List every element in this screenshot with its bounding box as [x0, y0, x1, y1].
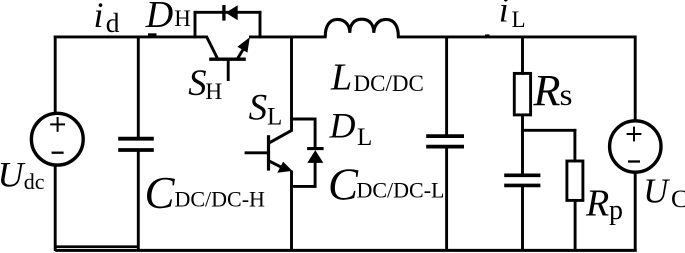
- svg-text:s: s: [560, 77, 573, 112]
- wire node to Rp: [521, 129, 576, 132]
- svg-text:L: L: [512, 7, 526, 32]
- svg-text:L: L: [357, 124, 372, 151]
- svg-text:DC/DC-H: DC/DC-H: [175, 187, 266, 212]
- diode DH: [194, 5, 262, 38]
- svg-text:L: L: [330, 57, 352, 99]
- label UC: [643, 172, 685, 213]
- capacitor Cp: [504, 130, 540, 251]
- wire bottom rail: [55, 249, 637, 252]
- svg-text:H: H: [205, 79, 222, 105]
- wire left vertical top: [54, 36, 57, 115]
- label Rs: [533, 66, 573, 115]
- label C_DC/DC-H: [145, 168, 266, 218]
- svg-text:dc: dc: [24, 169, 45, 194]
- svg-text:d: d: [106, 7, 120, 38]
- transistor SL (IGBT): [245, 36, 293, 252]
- wire top rail right: [397, 35, 637, 38]
- label DH: [145, 0, 191, 36]
- wire top rail mid: [249, 35, 327, 38]
- wire bottom rail segment: [54, 245, 139, 248]
- junction tick right: [485, 34, 490, 36]
- label id: [94, 0, 120, 38]
- capacitor C_DC/DC-H: [118, 36, 154, 252]
- voltage source UC: [610, 121, 661, 172]
- label SH: [188, 62, 222, 105]
- voltage source Udc: [31, 113, 83, 165]
- svg-text:R: R: [533, 66, 561, 115]
- diode DL: [290, 118, 324, 188]
- svg-text:C: C: [671, 184, 685, 213]
- svg-text:i: i: [94, 0, 104, 35]
- svg-text:DC/DC-L: DC/DC-L: [357, 178, 445, 203]
- label Rp: [585, 182, 623, 225]
- transistor SH (IGBT): [207, 37, 250, 82]
- svg-text:C: C: [145, 168, 176, 218]
- svg-text:U: U: [643, 172, 670, 210]
- wire UC branch top: [634, 36, 637, 123]
- svg-text:p: p: [609, 195, 623, 226]
- inductor L_DC/DC: [325, 19, 398, 37]
- label C_DC/DC-L: [328, 159, 445, 209]
- label SL: [249, 88, 283, 131]
- resistor Rs: [514, 36, 530, 132]
- label Udc: [0, 154, 45, 194]
- svg-text:D: D: [329, 106, 356, 146]
- svg-text:C: C: [328, 159, 359, 209]
- svg-text:DC/DC: DC/DC: [354, 71, 424, 96]
- svg-text:S: S: [188, 62, 206, 103]
- label iL: [499, 0, 526, 32]
- svg-text:i: i: [499, 0, 509, 29]
- junction tick: [148, 33, 157, 35]
- svg-text:S: S: [249, 88, 268, 129]
- svg-text:H: H: [174, 6, 191, 31]
- svg-text:L: L: [267, 104, 282, 131]
- resistor Rp: [567, 129, 583, 251]
- label DL: [329, 106, 373, 152]
- wire UC branch bottom: [634, 172, 637, 252]
- svg-text:U: U: [0, 154, 26, 194]
- capacitor C_DC/DC-L: [426, 36, 464, 252]
- label L_DC/DC: [330, 57, 424, 99]
- svg-text:D: D: [145, 0, 173, 36]
- svg-text:R: R: [585, 182, 609, 224]
- wire left vertical bottom: [54, 164, 57, 251]
- wire top rail left: [54, 35, 208, 38]
